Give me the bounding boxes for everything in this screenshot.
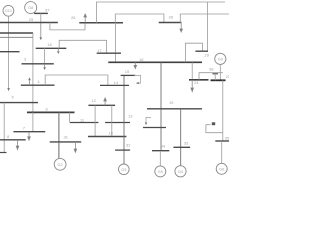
wire top corridor down to bus 29 [207, 2, 209, 51]
wire 28-38 corridor right [180, 14, 229, 23]
svg-text:7: 7 [23, 126, 26, 131]
svg-text:37: 37 [45, 8, 50, 13]
wire branch 4-14 over-route [45, 75, 108, 85]
svg-text:17: 17 [97, 48, 102, 53]
load arrow bent square at bus 22 [206, 125, 223, 133]
bus 16 [108, 61, 202, 63]
bus 33 [173, 146, 190, 148]
svg-text:3: 3 [24, 56, 27, 61]
load arrow node 30 line [7, 88, 10, 91]
generator G3 [119, 164, 130, 175]
svg-text:8: 8 [7, 134, 10, 139]
bus 31 [50, 141, 81, 143]
bus 32 [115, 149, 130, 151]
bus 1 [0, 36, 33, 38]
bus 38 [211, 79, 226, 81]
wire 37 to bus 25 [40, 13, 42, 22]
wire G8 lead [34, 12, 35, 13]
svg-text:G9: G9 [218, 57, 223, 61]
load arrow up at bus 26 [84, 14, 87, 23]
wire branch 18-17 over-route [59, 40, 106, 53]
svg-text:23: 23 [226, 74, 229, 79]
load arrow at bus 3 [44, 64, 46, 67]
load arrow at bus 28 [180, 23, 183, 33]
svg-text:G3: G3 [121, 168, 126, 172]
svg-text:12: 12 [92, 98, 97, 103]
bus 20 [143, 127, 166, 129]
svg-text:32: 32 [126, 143, 131, 148]
bus 9 [0, 152, 7, 154]
bus 14 [100, 84, 129, 86]
bus 23 small bar [213, 73, 219, 75]
wire branch 6-11 [69, 112, 71, 122]
bus 7 [13, 131, 45, 133]
wire 23 stub [214, 74, 216, 81]
bus 3 [22, 63, 54, 65]
svg-text:14: 14 [114, 80, 119, 85]
svg-text:28: 28 [169, 14, 174, 19]
svg-text:G10: G10 [5, 9, 12, 13]
load arrow at bus 25 [40, 23, 42, 38]
wire branch 2-3-4-6 vertical [32, 33, 34, 112]
bus 34 [152, 150, 169, 152]
bus 13 [105, 122, 130, 124]
wire branch 12-11-10 [94, 105, 96, 136]
wire branch 3-18 [44, 48, 46, 64]
bus 8 [0, 139, 26, 141]
load arrow at bus 18 [57, 48, 59, 51]
bus 25 [0, 22, 58, 24]
load arrow at bus 31 [74, 142, 77, 153]
wire branch 16-24 [191, 62, 193, 79]
svg-text:35: 35 [225, 135, 229, 140]
bus 26 [79, 22, 123, 24]
wire G9 lead [219, 65, 221, 81]
load arrow at bus 16 [134, 62, 137, 68]
bus 15 [121, 74, 136, 76]
bus 5 [0, 102, 38, 104]
svg-text:29: 29 [205, 53, 210, 58]
load arrow at bus 4 [29, 80, 31, 85]
wire branch 16-29 over-route [186, 43, 203, 62]
bus 12 [88, 104, 115, 106]
svg-text:26: 26 [71, 15, 76, 20]
wire 26 riser to top corridor [96, 2, 225, 23]
svg-text:G4: G4 [178, 170, 183, 174]
svg-text:6: 6 [46, 107, 49, 112]
svg-text:13: 13 [128, 114, 133, 119]
bus 2 [0, 32, 33, 34]
bus 11 [70, 122, 98, 124]
wire branch 6-7 [32, 112, 34, 131]
bus 28 [159, 22, 182, 24]
bus 30 [0, 51, 20, 53]
svg-text:33: 33 [184, 141, 189, 146]
svg-text:11: 11 [80, 117, 85, 122]
generator G9 [215, 53, 226, 64]
generator G4 [175, 166, 186, 177]
wire 26-27-17-16 vertical [115, 23, 117, 63]
generator G6 [216, 163, 227, 174]
wire branch 25-26 U route [50, 23, 85, 30]
svg-text:G2: G2 [58, 163, 63, 167]
svg-text:25: 25 [29, 17, 34, 22]
bus 6 [27, 111, 75, 113]
wire branch 12-13-10 [111, 105, 113, 136]
load arrow bent at bus 20 [146, 117, 151, 122]
svg-text:G8: G8 [28, 6, 33, 10]
bus 24 [189, 79, 209, 81]
wire branch 5-8-9 left vertical [3, 103, 5, 153]
generator G10 [3, 5, 14, 16]
load arrow at bus 8 [16, 140, 19, 150]
generator G8 [25, 2, 37, 14]
wire 15-14-13-32-G3 vertical [123, 75, 125, 164]
load arrow at bus 7 [28, 132, 31, 140]
svg-text:16: 16 [139, 57, 144, 62]
svg-text:10: 10 [109, 131, 114, 136]
wire 26-28 corridor [115, 14, 164, 23]
bus 29 [195, 50, 208, 52]
svg-text:4: 4 [37, 79, 40, 84]
wire branch 19-33 [180, 109, 182, 166]
generator G5 [155, 166, 166, 177]
wire right column vertical 38-35 [222, 80, 224, 141]
load arrow bent at bus 15 [134, 75, 141, 83]
svg-text:G6: G6 [219, 167, 224, 171]
svg-text:38: 38 [209, 67, 214, 72]
svg-text:34: 34 [161, 144, 166, 149]
svg-text:24: 24 [194, 80, 199, 85]
bus 35 [215, 140, 229, 142]
bus 10 [88, 136, 126, 138]
svg-text:31: 31 [64, 135, 69, 140]
wire 35-G6 lead [221, 141, 223, 163]
generator G2 [54, 158, 66, 170]
bus 4 [21, 84, 55, 86]
svg-text:G5: G5 [158, 170, 163, 174]
svg-text:5: 5 [12, 95, 15, 100]
bus 18 [36, 47, 67, 49]
wire 34-G5 lead [159, 151, 161, 166]
bus 37 [34, 12, 48, 14]
wire 6-31-G2 lead [58, 112, 60, 158]
svg-text:15: 15 [125, 69, 130, 74]
load arrow at bus 24 [191, 80, 194, 92]
bus 17 [97, 52, 121, 54]
svg-text:18: 18 [47, 42, 52, 47]
wire G10 lead down through buses to arrow [8, 16, 10, 88]
load arrow up at bus 12 [104, 98, 107, 105]
wire branch 24-23 stub [199, 73, 223, 80]
wire branch 16-19-20-34 vertical [160, 62, 162, 150]
svg-text:19: 19 [169, 100, 174, 105]
bus 19 [147, 108, 202, 110]
